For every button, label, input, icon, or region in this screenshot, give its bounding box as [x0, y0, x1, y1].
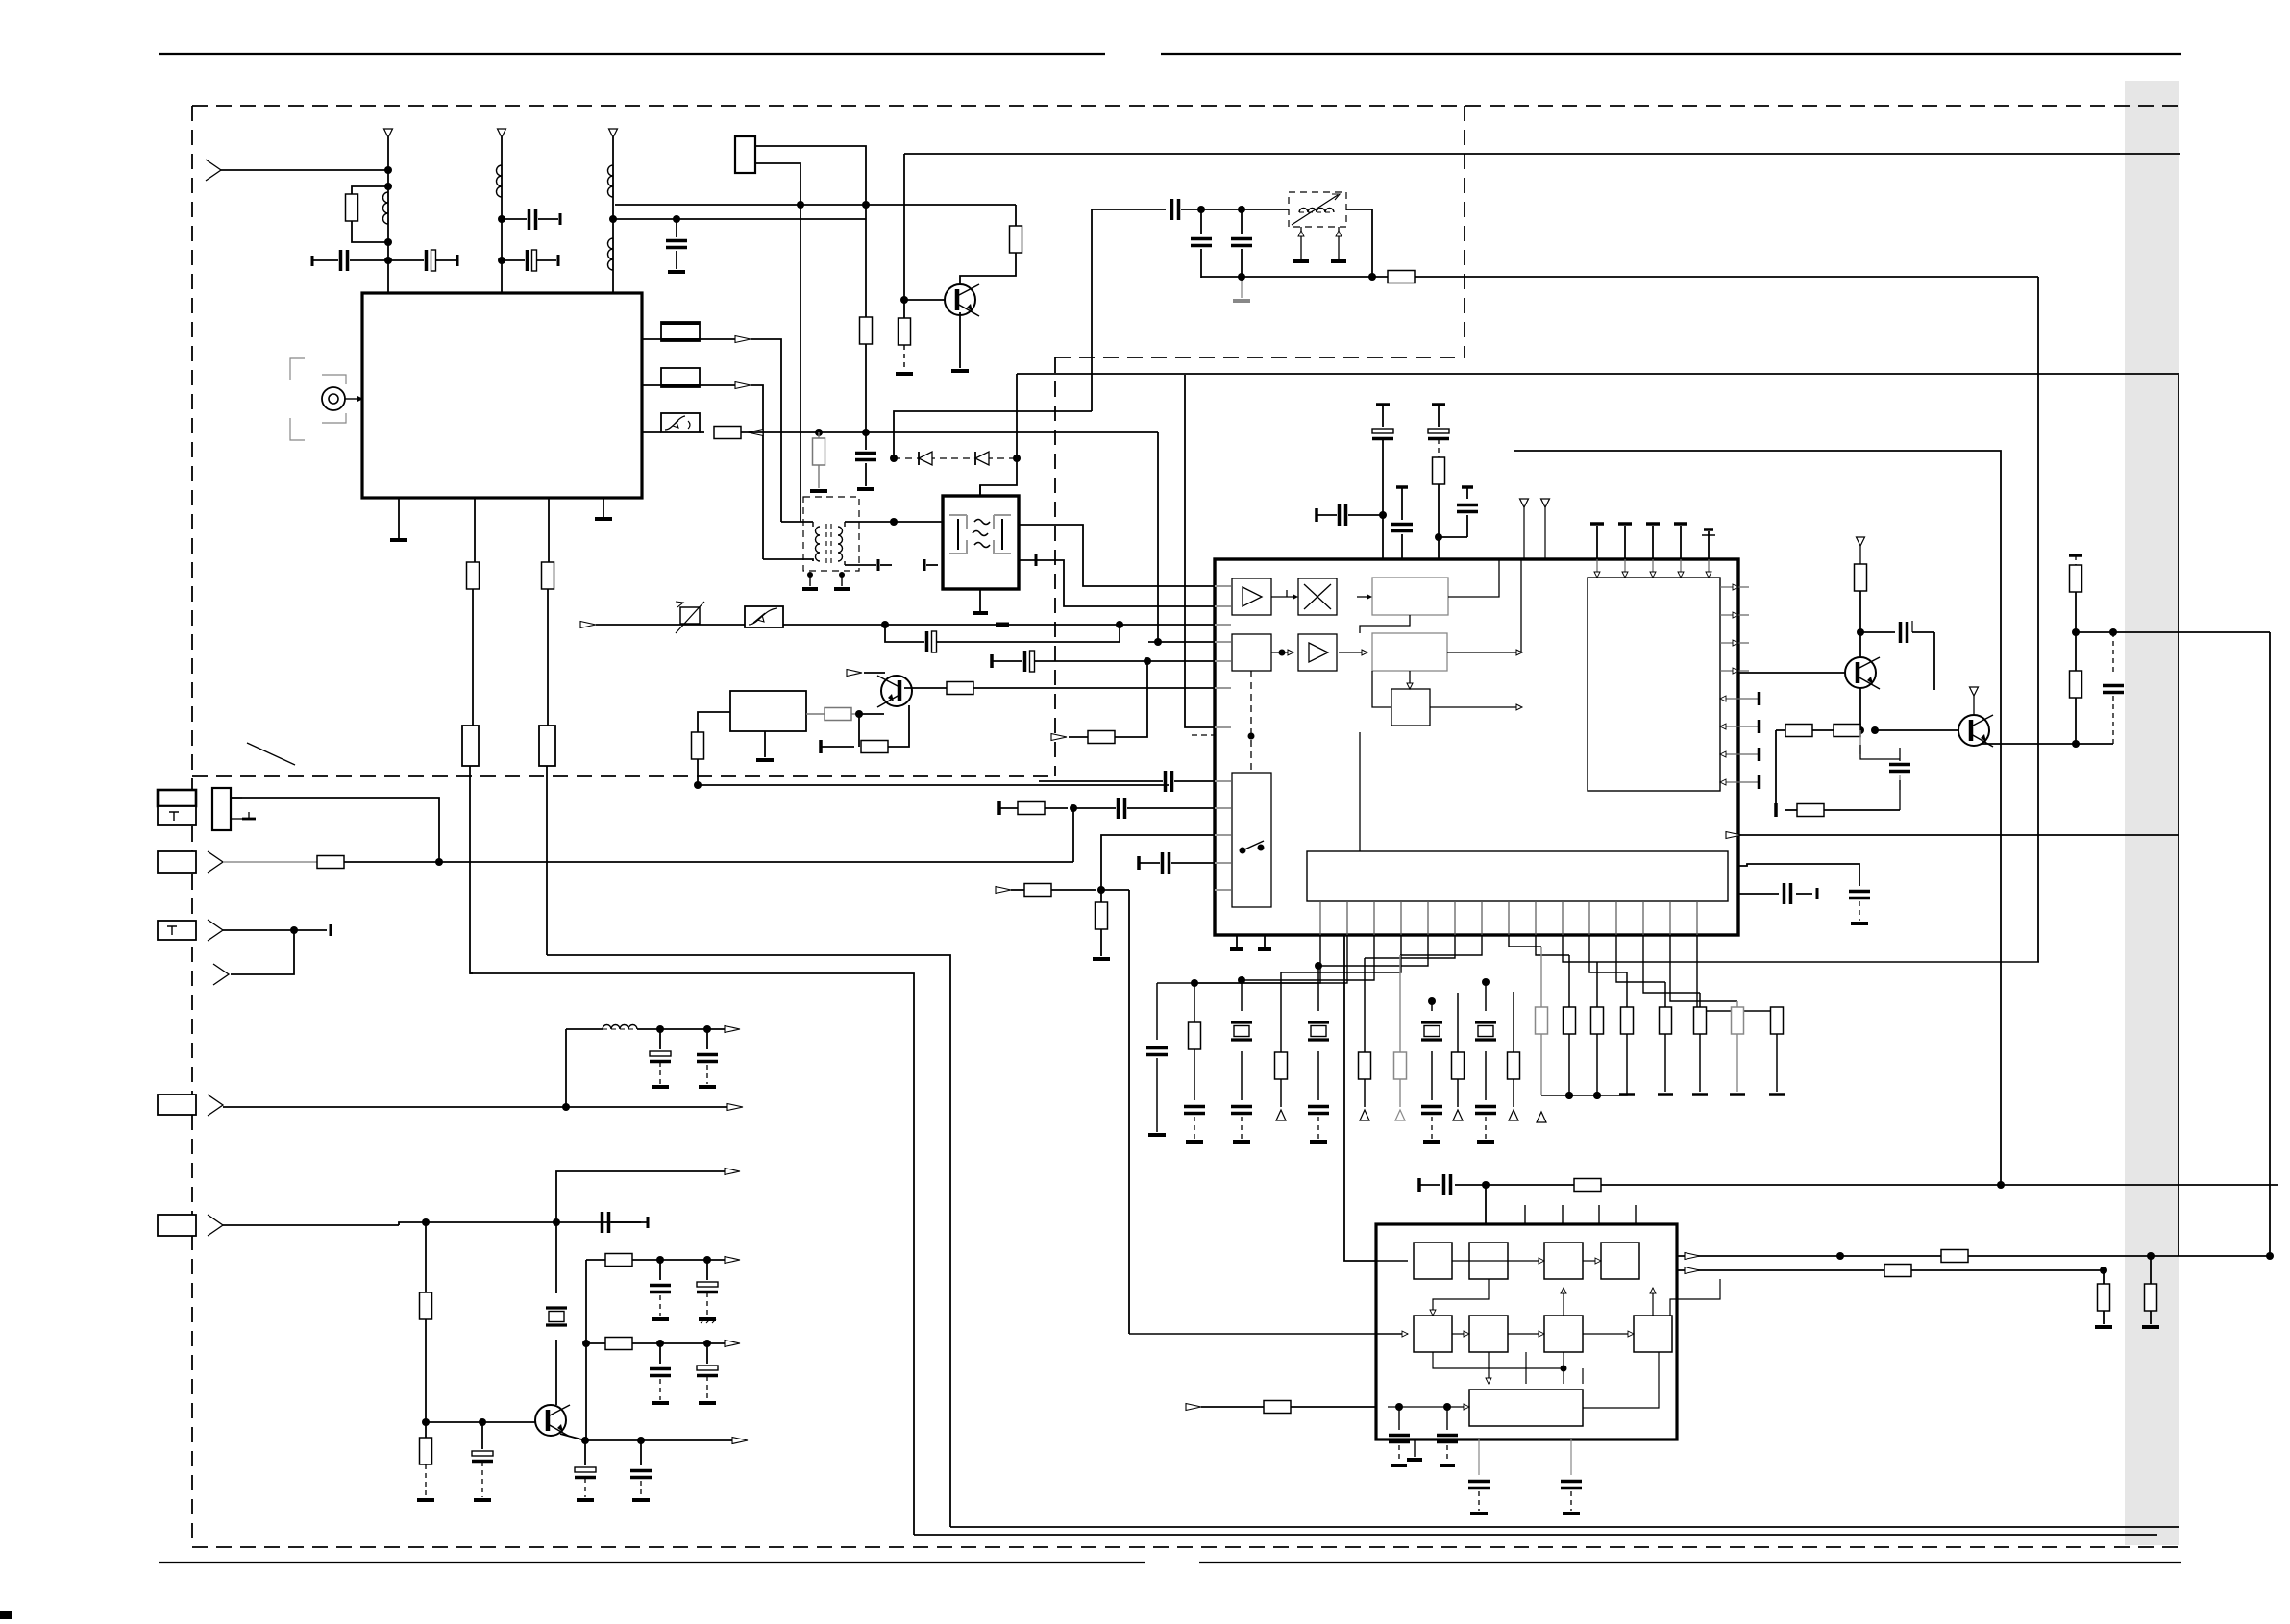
arrowhead AGC in — [580, 622, 596, 628]
wire bus213 corner down — [1015, 205, 1017, 226]
wire Q1 collector — [1859, 632, 1861, 657]
DEF top pins — [1524, 1205, 1526, 1224]
arrowhead D out — [727, 1104, 743, 1111]
node Q3 emitter — [855, 710, 863, 718]
arrowhead out2 — [735, 382, 751, 389]
capacitor C8 series — [925, 631, 929, 652]
wire conn C down — [231, 930, 294, 974]
wire R13 left — [1069, 736, 1088, 738]
capacitor C27 — [659, 1260, 661, 1280]
ground C30 — [699, 1401, 716, 1405]
resistor R29 — [1574, 1179, 1601, 1192]
wire tuner out1 — [642, 338, 661, 340]
capacitor C33 series — [1419, 1184, 1440, 1186]
ground C24 — [474, 1498, 491, 1502]
inner dashed partition vertical x=1098 — [1054, 357, 1056, 776]
antenna input chevron — [206, 160, 221, 181]
node r1 a — [656, 1256, 664, 1264]
wire y389 long — [1017, 373, 2179, 375]
DEF inner box r2c2 — [1469, 1316, 1508, 1352]
wire col941 down — [903, 154, 905, 300]
inner dashed partition horizontal y=808 — [192, 775, 1055, 777]
diode D2 — [975, 452, 989, 465]
capacitor C26 — [640, 1440, 642, 1465]
wire emitter out row — [585, 1439, 735, 1441]
resistor R25 — [425, 1422, 427, 1438]
node tune out — [1368, 273, 1376, 281]
T-stub C19 — [1774, 803, 1778, 817]
crystal X column — [1428, 997, 1436, 1005]
wire x579 up output — [556, 1171, 727, 1222]
DEF long box input — [1388, 1406, 1464, 1408]
capacitor C10 series — [1315, 508, 1318, 522]
wire x2267 vertical — [2178, 375, 2179, 1256]
wire T1 secondary bottom — [844, 561, 846, 565]
wire Q5 emitter — [560, 1434, 585, 1440]
node R15 — [1435, 533, 1442, 541]
transistor Q3 — [881, 676, 912, 706]
resistor R11 — [947, 682, 973, 695]
wire A1 to X1 — [1271, 596, 1293, 598]
wire B1 dashed down — [1250, 671, 1252, 773]
resistor R34 — [1264, 1401, 1291, 1414]
node C9 — [1379, 511, 1387, 519]
gray highlight bar — [2125, 81, 2179, 1545]
wire x1135 drop — [1091, 209, 1093, 411]
wire bus y213 — [615, 204, 1016, 206]
wire y817 long — [698, 784, 1169, 786]
capacitor C7 stub — [877, 559, 880, 571]
T-stub conn C — [294, 929, 327, 931]
DEF inner box r2c1 — [1414, 1316, 1452, 1352]
arrowhead out1 — [735, 336, 751, 343]
wire pin3 down — [547, 589, 549, 726]
connector box E — [158, 1215, 196, 1236]
wire IC dash link — [1192, 734, 1214, 736]
wire R34 to DEF — [1291, 1406, 1376, 1408]
DEF input left 2 — [1129, 1333, 1408, 1335]
IC top antenna pins — [1520, 499, 1529, 507]
capacitor C5 bypass — [676, 219, 677, 237]
wire x1165 riser — [1119, 625, 1120, 642]
SAW bottom stub — [979, 589, 981, 611]
resistor column gray with bar — [1736, 1001, 1738, 1007]
node r1 b — [703, 1256, 711, 1264]
ferrite bead — [996, 623, 1009, 627]
node col1 junction a — [384, 166, 392, 174]
bottom rule left segment — [159, 1562, 1145, 1563]
wire y1140 link — [1541, 1095, 1597, 1096]
wire T1 primary top — [781, 521, 813, 523]
inductor L1 col1 — [382, 192, 388, 224]
capacitor T-stub Q3 — [819, 740, 823, 753]
node pin668 — [1154, 638, 1162, 646]
inductor L5 row — [565, 1029, 567, 1107]
resistor R32 — [2103, 1270, 2105, 1284]
resistor R6 — [860, 317, 873, 344]
node C33 — [1482, 1181, 1490, 1189]
IF amp block — [730, 691, 806, 731]
wire C17 corner — [1933, 632, 1935, 690]
capacitor C2 right trimmer — [388, 259, 424, 261]
wire DEF clock drop — [1485, 1185, 1487, 1224]
transistor Q4 — [945, 284, 975, 315]
resistor column with bar — [1776, 1007, 1778, 1011]
chevron C — [208, 920, 223, 941]
wire R21 down — [2075, 592, 2077, 632]
crystal X column — [1482, 978, 1490, 986]
variable inductor dashed box — [1289, 192, 1346, 227]
node bus213 b — [862, 201, 870, 209]
resistor R8 — [903, 300, 905, 318]
ground C25 — [577, 1498, 594, 1502]
capacitor C6 column — [865, 434, 867, 450]
tuner block — [362, 293, 642, 498]
wire DEF output B — [1677, 1269, 2104, 1271]
capacitor C20 — [2112, 632, 2114, 673]
switch block S1 — [1232, 773, 1271, 907]
wire AGC branch down — [885, 625, 924, 642]
capacitor C35 — [1446, 1407, 1448, 1430]
mixer block X1 — [1298, 578, 1337, 615]
wire fanout right nest — [1509, 935, 1541, 947]
inductor L4 col3 lower — [607, 238, 613, 270]
resistor column with bar — [1664, 982, 1666, 1007]
capacitor C29 — [659, 1343, 661, 1364]
wire gray stub C16 — [1241, 277, 1243, 298]
wire conn E corner — [399, 1222, 648, 1225]
node r2 a — [656, 1340, 664, 1347]
wire osc vertical 1 — [1498, 559, 1500, 578]
resistor R28 column — [1191, 979, 1198, 987]
ground T1 left — [809, 575, 811, 586]
wire IC pin right y899 — [1738, 864, 1859, 886]
wire y288 bus — [1201, 276, 2038, 278]
wire O3 link — [1372, 671, 1391, 707]
wire y1140 up — [1597, 1092, 1627, 1095]
wire y389 riser from diode node — [1016, 374, 1018, 458]
wire fanout to y1001 right — [1597, 961, 2039, 963]
page corner mark — [0, 1611, 12, 1619]
resistor R2 — [467, 562, 480, 589]
resistor R31 — [1884, 1265, 1911, 1277]
capacitor C28 — [706, 1260, 708, 1280]
SAW IDT right — [994, 515, 1011, 554]
wire pin2 down — [472, 589, 474, 726]
capacitor C32 column — [1184, 1105, 1205, 1109]
T-bar right rail — [2069, 554, 2082, 557]
node feed b — [1443, 1403, 1451, 1411]
ground R25 — [417, 1498, 434, 1502]
capacitor C9 column — [1376, 403, 1390, 406]
resistor column with bar — [1626, 972, 1628, 1007]
wire out row 2 — [586, 1342, 605, 1344]
node T1 gnd left — [807, 572, 813, 578]
DEF inner box r2c4 — [1634, 1316, 1672, 1352]
node T1 gnd right — [839, 572, 845, 578]
wire Q3 base right — [904, 687, 947, 689]
wire IC pin y813 — [1039, 780, 1163, 782]
wire R9 down — [697, 759, 699, 785]
wire out3 long — [760, 431, 1158, 433]
SAW filter block — [943, 496, 1019, 589]
resistor column with bar — [1699, 993, 1701, 1007]
capacitor C3 col2 — [502, 218, 527, 220]
diode D1 — [919, 452, 932, 465]
inner dashed partition horizontal y=372 — [1055, 357, 1465, 358]
wire O2 out right — [1447, 652, 1521, 653]
ground C27 — [652, 1317, 669, 1321]
crystal X column — [1315, 962, 1322, 970]
DEF wires internal — [1452, 1260, 1539, 1262]
node AGC junction — [881, 621, 889, 628]
node conn C — [290, 926, 298, 934]
oscillator block O1 — [1372, 578, 1448, 615]
node pin688 — [1144, 657, 1151, 665]
DEF input left 1 — [1376, 1260, 1408, 1262]
node row2 — [582, 1340, 590, 1347]
node B1 out — [1279, 650, 1286, 656]
block O3 — [1391, 689, 1430, 726]
node col3 junction — [609, 215, 617, 223]
wire R15 to IC — [1438, 537, 1440, 559]
node right rail a — [2072, 628, 2080, 636]
chevron E — [208, 1215, 223, 1236]
arrowhead r2 — [725, 1341, 740, 1347]
resistor R13 — [1088, 731, 1115, 744]
wire R15 down — [1438, 484, 1440, 537]
transformer T1 windings — [815, 527, 820, 561]
wire y1597 bottom — [914, 1534, 2157, 1536]
chevron C2 — [213, 964, 229, 985]
wire R7 to Q4 collector — [960, 253, 1016, 284]
wire C12 link — [1439, 536, 1467, 538]
wire IC pin right y869 long — [1738, 834, 2179, 836]
wire IC internal riser x1583 — [1520, 559, 1522, 652]
transistor Q1 — [1845, 657, 1876, 688]
capacitor column — [1231, 1105, 1252, 1109]
capacitor column — [1308, 1105, 1329, 1109]
connector box D — [158, 1095, 196, 1115]
wire register pins bottom — [1319, 901, 1321, 935]
node y817 — [694, 781, 702, 789]
amp block A1 — [1232, 578, 1271, 615]
wire B1 to A2 — [1271, 652, 1293, 653]
connector box A — [158, 790, 196, 806]
wire emitter row — [1776, 729, 1860, 731]
ground col3 cap — [668, 270, 685, 274]
wire R11 to IC — [973, 687, 1214, 689]
wire IC pin y841 — [997, 801, 1001, 815]
capacitor column — [1475, 1105, 1496, 1109]
wire Q2 emitter out — [1982, 743, 2076, 744]
resistor R12 — [861, 741, 888, 753]
wire y994 output — [547, 955, 950, 1527]
SAW input stub top — [979, 485, 981, 496]
node out B — [2100, 1267, 2107, 1274]
node Q5 base row a — [422, 1418, 430, 1426]
DEF long box — [1469, 1390, 1583, 1426]
wire pin926 corner — [1128, 890, 1130, 1334]
wire R20 link — [1899, 780, 1901, 810]
outer dashed box bottom — [192, 1546, 2179, 1548]
IC left edge pin stubs — [1215, 585, 1231, 587]
wire Q4 emitter — [959, 312, 961, 368]
node R19 out — [1871, 726, 1879, 734]
resistor column to test point — [1364, 958, 1366, 1052]
inner dashed partition vertical x=1524 — [1464, 106, 1465, 357]
node diode row right — [1013, 455, 1021, 462]
node em b — [637, 1437, 645, 1444]
wire SAW out bottom — [1019, 560, 1214, 606]
resistor column gray — [1399, 955, 1401, 1052]
wire x1205 riser — [1157, 432, 1159, 642]
DEF inner box r2c3 — [1544, 1316, 1583, 1352]
DEF inner box r1c3 — [1544, 1243, 1583, 1279]
bottom rule right segment — [1199, 1562, 2181, 1563]
wire y218 feed — [1092, 209, 1166, 210]
node C16 gnd — [1238, 273, 1245, 281]
wire T1 sec to SAW — [894, 521, 943, 523]
wire out2 to corner — [751, 385, 763, 559]
capacitor C17 series — [1860, 631, 1895, 633]
DEF bottom pins — [1414, 1439, 1416, 1457]
tuner bottom pin 4 — [603, 498, 604, 517]
wire antenna to column 1 — [221, 169, 388, 171]
ground C26 — [632, 1498, 650, 1502]
node pin926 — [1097, 886, 1105, 894]
wire tuner out3 — [642, 431, 661, 433]
potentiometer VR1 — [680, 607, 700, 624]
wire Q1 emitter — [1859, 688, 1861, 730]
resistor column to test point — [1280, 972, 1282, 1052]
wire tune out — [1346, 209, 1372, 277]
wire pin688 branch — [1115, 661, 1147, 737]
capacitor C37 series — [1783, 883, 1786, 904]
wire C9 to IC — [1382, 515, 1384, 559]
ground tuner pin4 — [595, 517, 612, 521]
wire inner box pins top — [1596, 559, 1598, 578]
arrowhead out3 left — [748, 430, 763, 436]
node E b — [553, 1218, 560, 1226]
T-stub SAW lower — [1035, 554, 1038, 566]
wire y1589 bottom — [950, 1526, 2179, 1528]
wire R17 down — [1859, 591, 1861, 632]
T-stub conn A — [248, 812, 250, 819]
block O2 — [1372, 633, 1447, 671]
node diode row left — [890, 455, 898, 462]
wire conn D — [223, 1106, 730, 1108]
attenuator box 2 — [745, 606, 783, 627]
IC internal vertical bus — [1286, 590, 1288, 597]
capacitor C11 column — [1432, 403, 1445, 406]
node out A1 — [1836, 1252, 1844, 1260]
resistor R30 — [1941, 1250, 1968, 1263]
node T1 sec — [890, 518, 898, 526]
wire y428 link — [894, 411, 1092, 458]
block B1 — [1232, 634, 1271, 671]
resistor column to test point — [1457, 993, 1459, 1052]
wire out1 to corner — [751, 339, 781, 522]
antenna stub column 2 — [498, 129, 506, 137]
node pin841 — [1070, 804, 1077, 812]
coax connector — [322, 387, 345, 410]
DEF long box feed row — [1186, 1404, 1201, 1411]
DEF feedback bus — [1433, 1352, 1564, 1368]
DEF inner box r1c4 — [1601, 1243, 1639, 1279]
wire IF amp left — [698, 712, 730, 732]
wire diode row — [894, 457, 1017, 459]
DEF processor block — [1376, 1224, 1677, 1439]
node right rail c — [2072, 740, 2080, 748]
node r2 b — [703, 1340, 711, 1347]
node tune a — [1197, 206, 1205, 213]
resistor R18 — [1785, 725, 1812, 737]
wire out row 1 — [586, 1259, 605, 1261]
node conn B — [435, 858, 443, 866]
wire conn A run — [231, 798, 439, 862]
ground tuner pin1 — [390, 538, 407, 542]
ground C29 — [652, 1401, 669, 1405]
wire IC pin y757 — [1185, 375, 1214, 727]
antenna Q1 — [1857, 537, 1865, 546]
variable inductor coil — [1299, 209, 1334, 213]
SAW squiggle symbol — [973, 520, 990, 548]
arrowhead Q3 collector — [847, 670, 862, 677]
ground C35 — [1440, 1464, 1455, 1467]
wire O1-O2 link — [1360, 615, 1410, 633]
wire tuner out2 — [642, 384, 661, 386]
capacitor C25 — [584, 1440, 586, 1465]
wire T1 primary bottom — [763, 559, 813, 561]
wire x2121 drop — [2037, 277, 2039, 962]
resistor R3 — [542, 562, 554, 589]
node Q1 coll — [1857, 628, 1864, 636]
wire connector out2 — [755, 163, 800, 205]
wire conn B2 — [344, 861, 1073, 863]
transistor Q2 — [1958, 715, 1989, 746]
capacitor C23 series — [601, 1212, 604, 1233]
node y1140 a — [1565, 1092, 1573, 1099]
resistor R33b column — [2150, 1256, 2152, 1284]
antenna stub column 3 — [609, 129, 618, 137]
capacitor C36 — [1849, 890, 1870, 894]
wire connector out1 — [755, 146, 866, 205]
transformer T1 dashed box — [803, 497, 859, 571]
capacitor column — [1421, 1105, 1442, 1109]
SAW ground stub left — [926, 564, 938, 566]
ground T1 right — [841, 575, 843, 586]
wire long vertical x1399 — [1344, 935, 1376, 1261]
wire pin3 lower — [546, 766, 548, 955]
inductor L3 col3 — [607, 165, 613, 197]
antenna stub column 1 — [384, 129, 393, 137]
wire pin841 branch — [1072, 808, 1074, 862]
ground R33b — [2142, 1325, 2159, 1329]
capacitor C13 column — [1396, 485, 1408, 489]
IF filter block 1 — [462, 726, 479, 766]
tuner bottom pin 3 wire — [548, 498, 550, 562]
capacitor C34 — [1398, 1407, 1400, 1430]
resistor R22 — [2075, 632, 2077, 671]
arrowhead r1 — [725, 1257, 740, 1264]
wire base to Q4 — [904, 299, 945, 301]
resistor R27 — [605, 1338, 632, 1350]
amp block A2 — [1298, 634, 1337, 671]
wire R19 to Q2 — [1875, 729, 1959, 731]
resistor R4 horizontal — [714, 427, 741, 439]
ground Q4 — [951, 369, 969, 373]
